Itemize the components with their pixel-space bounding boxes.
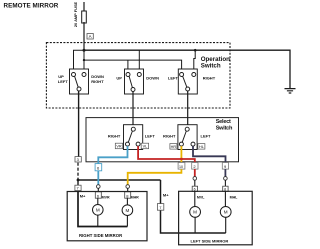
svg-text:Switch: Switch: [201, 62, 221, 69]
wire feed to SW1 right terminal: [83, 50, 85, 72]
wire M+ inside right mirror: [78, 192, 127, 227]
right side mirror box: [67, 192, 147, 241]
svg-text:MVL: MVL: [197, 196, 205, 200]
wire second bus: [84, 60, 182, 72]
wire battery feed to fuse: [83, 2, 85, 12]
junction dot bus2: [83, 59, 85, 61]
svg-text:RIGHT: RIGHT: [91, 79, 104, 84]
motor MHL: [224, 191, 226, 206]
left side mirror box: [179, 191, 253, 245]
switch SW4 vertical select: [124, 125, 143, 150]
junction dot yellow-red crossing: [180, 158, 183, 161]
terminal label VL: [141, 143, 148, 149]
svg-text:LEFT: LEFT: [145, 134, 156, 139]
svg-text:UP: UP: [116, 76, 122, 81]
wire SW1 bottom to pin 3: [78, 91, 80, 157]
wire navy to left mirror MHL: [224, 169, 226, 177]
connector circle MHL: [224, 177, 228, 181]
svg-text:M: M: [96, 208, 100, 213]
svg-text:10: 10: [179, 165, 183, 169]
svg-text:REMOTE MIRROR: REMOTE MIRROR: [4, 3, 59, 10]
svg-text:A: A: [89, 34, 92, 39]
wire yellow HR to pin 10: [180, 146, 182, 162]
pin 8 mirror terminal: [125, 192, 131, 198]
svg-text:LEFT: LEFT: [201, 134, 212, 139]
svg-text:M: M: [224, 210, 228, 215]
wire branch to SW1 up-left terminal: [74, 50, 85, 72]
motor MVR: [97, 198, 99, 204]
svg-text:MVR: MVR: [102, 196, 110, 200]
connector circle MVR: [97, 185, 101, 189]
wire red VL to pin 2: [138, 146, 195, 162]
wire yellow to right mirror MHR: [128, 169, 182, 185]
junction dot feed: [83, 49, 86, 52]
wire M+ bus to left mirror: [78, 179, 161, 181]
pin 3 connector box: [75, 157, 81, 162]
svg-text:LEFT SIDE MIRROR: LEFT SIDE MIRROR: [191, 238, 229, 243]
wire broken section below pin 3: [77, 163, 79, 180]
connector circle MHR: [126, 185, 130, 189]
svg-text:DOWN: DOWN: [146, 76, 159, 81]
junction dot M+ bus: [77, 179, 80, 182]
switch SW1 up/down-left/right: [70, 69, 89, 94]
switch SW3 left/right: [178, 69, 197, 94]
wire navy HL to pin 9: [193, 146, 226, 162]
terminal label VR: [115, 143, 122, 149]
wire bus2 drop to SW2 left terminal: [127, 60, 129, 72]
svg-text:HL: HL: [199, 145, 204, 149]
svg-text:M+: M+: [163, 192, 169, 197]
fuse F1 20 AMP FUSE: [82, 11, 87, 23]
wire top bus to ground: [84, 50, 290, 88]
select switch box: [86, 118, 239, 162]
wire M+ into right mirror: [77, 180, 79, 192]
pin 9 connector box: [222, 163, 228, 170]
svg-text:LEFT: LEFT: [168, 76, 179, 81]
wire SW3 bottom to select switch SW5: [187, 91, 189, 127]
terminal label HL: [198, 144, 205, 150]
ground G1: [285, 89, 296, 93]
svg-text:M: M: [125, 208, 129, 213]
switch SW2 up/down: [125, 69, 144, 94]
wire blue VR to right mirror MVR: [98, 146, 127, 164]
svg-text:RIGHT: RIGHT: [108, 134, 121, 139]
pin 7 connector left mirror: [157, 204, 163, 211]
svg-text:M: M: [193, 210, 197, 215]
svg-text:RIGHT SIDE MIRROR: RIGHT SIDE MIRROR: [79, 233, 123, 238]
terminal label HR: [170, 144, 177, 150]
wire red to left mirror MVL: [194, 169, 196, 177]
svg-text:MHR: MHR: [131, 196, 140, 200]
svg-text:HR: HR: [171, 145, 177, 149]
svg-text:MHL: MHL: [230, 196, 239, 200]
pin 6 mirror terminal: [95, 192, 101, 198]
svg-text:RIGHT: RIGHT: [163, 134, 176, 139]
svg-text:RIGHT: RIGHT: [203, 76, 216, 81]
wire SW2 bottom to select switch SW4: [132, 92, 134, 128]
switch SW5 horizontal select: [178, 125, 197, 150]
svg-text:Switch: Switch: [216, 126, 233, 132]
motor MHR: [126, 198, 128, 205]
operation switch dashed box: [46, 43, 230, 108]
pin 2 connector box: [192, 163, 198, 170]
pin 10 connector box: [178, 163, 185, 170]
pin 7 connector right mirror: [75, 185, 81, 190]
wire M+ drop to left mirror: [161, 180, 226, 233]
pin 8 left mirror terminal: [223, 186, 228, 191]
svg-text:20 AMP FUSE: 20 AMP FUSE: [73, 1, 78, 27]
connector circle MVL: [193, 177, 197, 181]
pin 6 connector box: [95, 164, 102, 171]
svg-text:Select: Select: [216, 119, 231, 125]
wire bus1 drop to SW3 right terminal: [194, 50, 195, 72]
motor MVL: [194, 191, 196, 206]
svg-text:VL: VL: [143, 145, 148, 149]
pin 6 left mirror terminal: [192, 186, 197, 191]
wire bus1 drop to SW2 right terminal: [138, 50, 140, 72]
junction dot bus1 right: [194, 49, 197, 52]
svg-text:VR: VR: [116, 145, 122, 149]
svg-text:M+: M+: [80, 193, 86, 198]
wire fuse to node A: [83, 22, 85, 50]
node A: [87, 34, 93, 40]
svg-text:LEFT: LEFT: [58, 79, 69, 84]
